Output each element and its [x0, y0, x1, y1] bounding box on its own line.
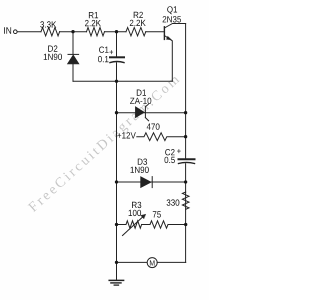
label R2 value: [130, 20, 146, 26]
junction R3 left: [115, 223, 118, 226]
diode D2: [68, 53, 79, 55]
label R3: [132, 202, 141, 208]
label 330: [167, 199, 180, 205]
label 470: [147, 123, 160, 129]
label M motor: [150, 260, 155, 265]
resistor 330: [182, 192, 189, 209]
wire to node A: [60, 31, 87, 33]
junction emitter bus: [115, 80, 118, 83]
wire to R3: [117, 224, 127, 226]
diode D3: [141, 177, 152, 188]
label D3: [138, 159, 147, 165]
wire emitter bus: [73, 80, 172, 82]
wire from IN: [17, 31, 41, 33]
junction D1 left: [115, 111, 118, 114]
wire D1 row: [117, 112, 186, 114]
variable resistor R3: [126, 221, 142, 228]
label D2 type: [44, 54, 62, 60]
wire D3 row: [117, 181, 186, 183]
label R1: [89, 12, 98, 18]
transistor Q1: [163, 27, 165, 40]
ground: [109, 279, 123, 281]
label R2: [134, 12, 143, 18]
node IN terminal: [14, 30, 18, 34]
wire to motor: [117, 261, 148, 263]
label C2 value: [165, 157, 175, 163]
label Q1: [167, 6, 177, 14]
wire R3 to 75: [142, 224, 150, 226]
junction D3 right: [184, 180, 187, 183]
wire 75 to right bus: [168, 224, 186, 226]
wire motor to right bus: [157, 261, 186, 263]
zener diode D1: [135, 107, 144, 118]
capacitor C1: [110, 56, 124, 58]
junction motor left: [115, 261, 118, 264]
junction 75 right: [184, 223, 187, 226]
node A junction: [71, 30, 74, 33]
label Q1 type: [163, 16, 181, 22]
label C1 plus: [110, 50, 114, 54]
wire to node B: [105, 31, 127, 33]
resistor 3.3K: [41, 28, 60, 36]
wire right bus lower: [185, 164, 187, 263]
junction 470 right: [184, 135, 187, 138]
label 3.3K: [40, 21, 56, 27]
label 75: [153, 211, 161, 217]
label D1: [137, 90, 146, 96]
watermark FreeCircuitDiagram.Com: [28, 74, 182, 215]
label IN: [4, 27, 11, 34]
label R3 value: [129, 210, 142, 216]
wire node A to D2: [72, 32, 74, 55]
label C1 value: [98, 56, 108, 62]
label C1: [99, 47, 108, 53]
wire left bus: [116, 63, 118, 279]
junction D1 right: [184, 111, 187, 114]
motor M: [147, 258, 157, 268]
capacitor C2: [179, 158, 195, 160]
label +12V: [117, 132, 136, 138]
node B junction: [115, 30, 118, 33]
label D3 type: [131, 167, 149, 173]
label R1 value: [85, 20, 101, 26]
label C2: [165, 149, 174, 155]
wire to Q1 base: [146, 31, 164, 33]
resistor 470 with +12V feed: [137, 133, 186, 141]
resistor 75: [150, 221, 168, 228]
wire right bus upper: [185, 24, 187, 159]
resistor R2: [126, 28, 146, 36]
label D2: [48, 45, 57, 51]
label D1 type: [130, 98, 151, 104]
label C2 plus: [177, 149, 181, 153]
resistor R1: [87, 28, 105, 36]
junction D3 left: [115, 180, 118, 183]
wire left bus upper: [116, 32, 118, 57]
wire to ground: [116, 262, 118, 280]
